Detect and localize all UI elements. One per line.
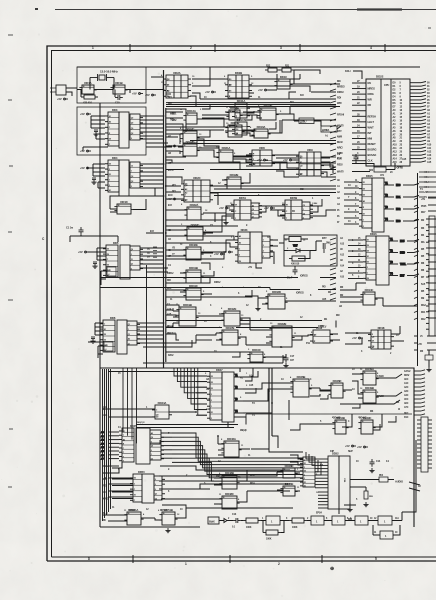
gate DD32D <box>265 290 287 309</box>
gate DD17B <box>219 326 240 345</box>
svg-text:A0C: A0C <box>404 378 409 381</box>
gate DD10B <box>257 104 278 120</box>
svg-text:D1: D1 <box>363 182 365 184</box>
svg-text:CAS1/: CAS1/ <box>404 370 411 373</box>
dd16 bottom <box>340 283 366 290</box>
leftio wires <box>66 88 77 96</box>
capacitor C13 sym <box>233 518 241 523</box>
svg-text:M17: M17 <box>421 211 426 214</box>
resistor R20 <box>374 167 386 172</box>
capacitor C18 <box>293 267 298 275</box>
gate DD46A <box>221 437 241 457</box>
cnt2cpu <box>192 71 362 99</box>
dd5 bus <box>140 248 168 272</box>
svg-text:DD2B: DD2B <box>235 71 242 75</box>
svg-text:RES/: RES/ <box>103 465 109 468</box>
ram DD6 <box>117 320 127 354</box>
svg-text:-1: -1 <box>105 349 107 351</box>
ground <box>426 367 431 372</box>
svg-text:-1: -1 <box>108 274 110 276</box>
dd15 outputs <box>384 182 401 223</box>
resistor R34 <box>289 256 308 261</box>
register DD47 <box>222 372 234 422</box>
svg-text:+5V: +5V <box>57 97 62 101</box>
ground <box>92 264 97 269</box>
svg-text:M83: M83 <box>396 220 401 223</box>
ground <box>347 507 352 512</box>
svg-text:DD1D: DD1D <box>120 200 127 204</box>
svg-text:DD46A: DD46A <box>227 437 236 441</box>
dd32d wires <box>258 298 336 306</box>
wire dd52 left stubs <box>315 459 328 508</box>
svg-text:RAS/: RAS/ <box>168 354 174 357</box>
mux DD33 <box>235 228 250 263</box>
gate DD32C <box>184 223 205 240</box>
resistor R25 <box>81 95 98 99</box>
+5V supply <box>78 250 89 254</box>
svg-text:ПС/: ПС/ <box>172 190 176 193</box>
svg-text:DD8: DD8 <box>259 146 265 150</box>
gate DD13B <box>225 121 244 137</box>
gate DD1C <box>274 75 292 89</box>
svg-text:9: 9 <box>303 218 304 220</box>
bottom wires <box>108 368 382 521</box>
cpu left pin stubs and numbers <box>352 83 366 161</box>
svg-text:DD1A: DD1A <box>84 81 91 85</box>
svg-text:TRNL: TRNL <box>400 263 407 266</box>
resistor R17 <box>321 126 337 132</box>
+5V supply <box>132 92 143 96</box>
bus bundle to DD52 <box>172 433 303 481</box>
svg-text:A3C: A3C <box>404 390 409 393</box>
svg-text:Ф: Ф <box>398 408 400 411</box>
pin nums chain <box>228 518 328 520</box>
svg-text:IORG/: IORG/ <box>167 272 174 275</box>
gate DD12C <box>180 127 199 143</box>
mux DD33 pins <box>262 236 273 258</box>
svg-text:A2: A2 <box>363 200 365 203</box>
svg-text:CPU: CPU <box>384 83 389 87</box>
svg-text:MREG: MREG <box>368 87 375 91</box>
svg-text:INT/: INT/ <box>322 237 327 240</box>
svg-text:DD1B: DD1B <box>115 81 122 85</box>
capacitor C2 <box>94 130 98 132</box>
ground <box>283 363 288 368</box>
svg-text:IORG/: IORG/ <box>337 91 344 94</box>
resistor R54 <box>379 477 388 482</box>
m1 wires <box>236 321 336 328</box>
amp stage 6 <box>380 531 393 539</box>
ram DD5 right pins <box>130 246 143 270</box>
inverter DD1A <box>79 81 96 94</box>
svg-text:M05: M05 <box>400 240 405 243</box>
resistor R56 <box>243 518 261 523</box>
amp stage 5 <box>378 516 392 525</box>
svg-text:1: 1 <box>363 220 364 222</box>
cpu DD22 <box>366 79 410 166</box>
svg-text:DD14C: DD14C <box>365 288 374 292</box>
svg-text:100K: 100K <box>266 538 272 541</box>
wire dd47 left <box>196 376 207 415</box>
svg-text:WAIT/: WAIT/ <box>337 124 344 127</box>
gate DD10C <box>247 348 265 362</box>
svg-text:ВЫХ: ВЫХ <box>209 521 215 524</box>
decoder DD15 pins <box>359 178 372 228</box>
svg-text:DD46D: DD46D <box>333 379 342 383</box>
decoder DD16 <box>376 236 389 285</box>
dd50 left labels <box>103 479 109 501</box>
svg-text:DD10A: DD10A <box>257 125 266 129</box>
+5V supply <box>80 149 91 153</box>
svg-text:D0: D0 <box>363 188 365 190</box>
+5V supply <box>345 444 356 448</box>
svg-text:Q1: Q1 <box>151 459 153 461</box>
dd16 outputs <box>389 238 407 278</box>
svg-text:D3: D3 <box>211 382 213 384</box>
svg-text:DD4: DD4 <box>112 156 118 160</box>
decoder DD15 <box>372 178 384 232</box>
svg-text:+5V: +5V <box>219 206 224 210</box>
svg-text:2: 2 <box>363 226 364 228</box>
c1 wires <box>70 235 118 242</box>
svg-text:2: 2 <box>211 418 212 420</box>
dd6 wires <box>88 323 104 358</box>
capacitor C17 sym <box>284 355 289 363</box>
amp stage 3 <box>332 516 345 525</box>
svg-text:3ML/: 3ML/ <box>326 242 331 245</box>
dd3 dd4 extra bus lines <box>137 136 163 343</box>
resistor R37 <box>425 355 433 360</box>
svg-text:A1C: A1C <box>404 382 409 385</box>
svg-text:2: 2 <box>304 467 305 469</box>
svg-text:DD31C: DD31C <box>189 284 198 288</box>
svg-text:Q1: Q1 <box>252 213 254 215</box>
resistor R22 <box>265 68 280 72</box>
svg-text:ИС/: ИС/ <box>172 184 176 187</box>
amp stage 4 <box>355 516 368 525</box>
ground <box>90 339 95 344</box>
trigger DD11A <box>232 99 250 118</box>
svg-text:DD17B: DD17B <box>226 326 235 330</box>
output jack BbIX <box>208 517 227 524</box>
svg-text:DD33: DD33 <box>241 228 248 232</box>
svg-text:12: 12 <box>252 217 254 219</box>
svg-text:M1/: M1/ <box>300 188 304 191</box>
svg-text:M82: M82 <box>396 208 401 211</box>
gate DD12A <box>183 109 199 124</box>
frame outer <box>47 46 436 561</box>
rom DD4 right pins <box>130 162 143 188</box>
svg-text:NMI: NMI <box>368 137 373 141</box>
svg-text:+5V: +5V <box>205 90 210 94</box>
midcl wires <box>166 130 255 294</box>
svg-text:D1: D1 <box>304 482 306 484</box>
svg-text:bM(H)/: bM(H)/ <box>240 430 247 432</box>
svg-text:D0: D0 <box>363 195 365 197</box>
svg-text:12: 12 <box>128 343 130 345</box>
svg-text:IORG: IORG <box>368 92 374 96</box>
ground <box>165 528 170 533</box>
cpu right pin numbers <box>393 82 403 164</box>
svg-text:YB: YB <box>172 248 175 250</box>
+5V supply <box>357 445 368 449</box>
svg-text:C1 1м: C1 1м <box>66 226 73 230</box>
gate DD49A <box>360 367 378 385</box>
svg-text:ПС/: ПС/ <box>168 96 172 99</box>
svg-text:+5V: +5V <box>145 93 150 97</box>
gate DD44A <box>152 401 172 419</box>
gate DD19B <box>176 303 198 326</box>
svg-text:+5B: +5B <box>424 191 429 194</box>
svg-text:DD47: DD47 <box>216 368 223 372</box>
cpu horiz <box>166 105 340 170</box>
pin nums chain2 <box>347 517 399 534</box>
svg-text:AUDIO: AUDIO <box>395 480 403 484</box>
svg-text:D0: D0 <box>304 471 306 473</box>
bottom verticals to DD45 <box>123 368 137 443</box>
svg-text:IORG1/: IORG1/ <box>300 275 308 278</box>
gate DD10A <box>251 125 270 138</box>
counter DD2B <box>225 71 252 98</box>
dd8 wires <box>246 155 333 173</box>
iorq wires <box>100 278 336 290</box>
svg-text:DD19B: DD19B <box>183 303 192 307</box>
frame ticks top <box>130 44 385 52</box>
latch DD7B pins <box>302 202 313 220</box>
capacitor C19 stub <box>323 243 325 253</box>
gate DD48E <box>280 482 297 496</box>
svg-text:Q0: Q0 <box>151 446 153 448</box>
+5V supply <box>205 90 216 94</box>
svg-text:M1/: M1/ <box>337 80 341 83</box>
gate DD44B <box>332 416 348 434</box>
edge connector box bottom <box>421 417 428 472</box>
dd19b wires <box>173 311 313 343</box>
inverter DD1B <box>110 81 127 94</box>
svg-text:DD12A: DD12A <box>187 109 196 113</box>
bottom section box <box>100 368 414 527</box>
svg-text:DD46B: DD46B <box>297 375 306 379</box>
svg-text:DD49A: DD49A <box>365 367 374 371</box>
amp stage 1 <box>266 516 280 525</box>
svg-text:+5V: +5V <box>258 88 263 92</box>
amp stage 2 <box>311 516 324 525</box>
gate DD32B <box>269 322 294 347</box>
svg-text:11A: 11A <box>395 517 399 520</box>
svg-text:Q0: Q0 <box>252 209 254 211</box>
trigger DD8 <box>249 146 275 166</box>
svg-text:13.0-16.0 MHz: 13.0-16.0 MHz <box>100 70 118 74</box>
int wires <box>279 239 322 267</box>
svg-text:P005: P005 <box>421 205 427 208</box>
dd1d wires <box>110 196 163 212</box>
svg-text:DD50: DD50 <box>138 470 145 474</box>
svg-text:2: 2 <box>211 394 212 396</box>
svg-text:DD32A: DD32A <box>190 203 199 207</box>
svg-text:DD7A: DD7A <box>239 196 246 200</box>
latch DD7A <box>231 196 251 220</box>
zone numbers <box>88 46 377 566</box>
svg-text:M12: M12 <box>421 318 426 321</box>
capacitor C4 <box>93 262 97 264</box>
svg-text:NRC/: NRC/ <box>337 147 343 150</box>
page top edge <box>35 8 436 11</box>
svg-text:DD32B: DD32B <box>278 322 287 326</box>
dd52 bottom wires <box>339 503 356 514</box>
+5V supply <box>352 336 363 340</box>
text sprinkles 2 <box>112 94 423 511</box>
buffer DD18 <box>368 326 394 349</box>
decoder DD50 rpins <box>154 476 165 500</box>
sound DD52 body2 <box>339 456 350 509</box>
svg-text:BUSAK: BUSAK <box>368 153 377 157</box>
svg-text:A2C: A2C <box>404 386 409 389</box>
svg-text:DD(C)1/: DD(C)1/ <box>137 422 145 424</box>
section border left <box>99 103 101 527</box>
svg-text:INT: INT <box>368 131 372 135</box>
svg-text:DD12C: DD12C <box>186 127 195 131</box>
capacitor C5 <box>91 337 95 339</box>
svg-text:PRES/ 9: PRES/ 9 <box>167 332 176 335</box>
mesh2 wires <box>108 105 396 509</box>
svg-text:D3: D3 <box>211 376 213 378</box>
svg-text:M14: M14 <box>250 474 255 477</box>
pin numbers sprinkle <box>124 74 379 516</box>
svg-text:MLS/: MLS/ <box>337 141 343 144</box>
capacitor C9 sym <box>354 154 359 162</box>
bottom left rails <box>103 369 111 521</box>
cpu right stubs <box>410 82 426 163</box>
svg-text:DD51A: DD51A <box>128 509 135 512</box>
svg-text:DD44B: DD44B <box>333 417 341 420</box>
svg-text:WAIT: WAIT <box>368 125 375 129</box>
gate DD32A <box>184 203 203 220</box>
dd44a wires <box>103 409 196 417</box>
svg-text:CLK: CLK <box>368 159 373 163</box>
svg-text:+5V: +5V <box>80 149 85 153</box>
decoder DD16 pins <box>363 236 376 280</box>
rom DD3 left pins <box>105 112 119 146</box>
long414 <box>246 414 412 417</box>
svg-text:2: 2 <box>211 400 212 402</box>
svg-text:A-(: A-( <box>325 135 328 138</box>
svg-text:D1: D1 <box>211 412 213 414</box>
svg-text:C3B: C3B <box>343 478 345 483</box>
svg-text:2: 2 <box>263 256 264 258</box>
gate DD46B <box>290 375 311 397</box>
mesh wires <box>143 92 336 363</box>
svg-text:DD10C: DD10C <box>252 348 261 352</box>
svg-text:BUSRG: BUSRG <box>368 148 377 152</box>
svg-text:KCL/: KCL/ <box>345 69 351 73</box>
gate DD49B <box>360 386 378 403</box>
svg-text:2: 2 <box>304 478 305 480</box>
svg-text:DD48D: DD48D <box>285 464 294 468</box>
left io box <box>56 85 66 95</box>
+5V supply <box>80 112 91 116</box>
svg-text:INT/: INT/ <box>337 130 342 133</box>
dd46a wires <box>218 436 250 455</box>
dd4 wires <box>87 164 105 188</box>
svg-text:M83: M83 <box>424 186 429 189</box>
dd45 right wires <box>161 433 172 458</box>
dd51 wires <box>103 508 293 521</box>
dd48 wires <box>159 470 290 504</box>
r20 wires <box>352 162 395 172</box>
ground <box>363 502 368 507</box>
svg-text:RD: RD <box>368 103 372 107</box>
svg-text:+5V: +5V <box>257 158 262 162</box>
sound DD52 <box>328 456 339 509</box>
dd16 left wires <box>348 240 363 279</box>
svg-text:DM0: DM0 <box>400 252 406 255</box>
svg-text:RD/: RD/ <box>167 279 171 282</box>
dd10 wires <box>225 106 336 133</box>
gate DD31A <box>216 146 235 162</box>
cpu left pin names <box>368 81 390 163</box>
counter DD2A <box>163 71 191 98</box>
svg-text:DD32E: DD32E <box>189 243 198 247</box>
svg-text:D1: D1 <box>304 463 306 465</box>
svg-text:M1/: M1/ <box>336 314 340 317</box>
svg-text:A14 11: A14 11 <box>167 308 175 311</box>
dd45 left bus <box>101 431 119 461</box>
svg-text:C-BH: C-BH <box>312 203 318 205</box>
edge rows 170-200 <box>419 171 436 199</box>
svg-text:D3: D3 <box>211 388 213 390</box>
rom DD4 <box>119 160 129 196</box>
svg-text:Q3: Q3 <box>303 205 305 207</box>
svg-text:A5C: A5C <box>404 398 409 401</box>
crystal ZQ1 <box>90 74 114 81</box>
r57 wires <box>263 521 284 533</box>
svg-text:DD7B: DD7B <box>290 196 297 200</box>
svg-text:EC/: EC/ <box>168 204 172 207</box>
mux DD45 pins <box>119 428 134 463</box>
gate DD12B <box>224 173 243 189</box>
svg-text:DD2C: DD2C <box>193 176 200 180</box>
gate DD48D <box>280 464 297 478</box>
svg-text:WR: WR <box>368 98 372 102</box>
dd33 wires <box>256 240 278 268</box>
rom DD3 <box>119 112 129 148</box>
section border right upper <box>417 173 419 366</box>
svg-text:1: 1 <box>211 406 212 408</box>
chain2 wires <box>345 512 402 535</box>
svg-text:M81: M81 <box>424 176 429 179</box>
dd5 wires <box>88 248 107 285</box>
INT circuit box <box>284 235 337 266</box>
capacitor C1 <box>79 227 84 235</box>
pulse shaper box <box>289 237 301 242</box>
gate DD1D <box>114 200 133 214</box>
counter DD9 <box>296 148 324 176</box>
svg-text:HALT: HALT <box>368 120 375 124</box>
resistor R21 <box>279 68 294 72</box>
svg-text:RES/: RES/ <box>337 164 343 167</box>
svg-text:DD6: DD6 <box>110 316 116 320</box>
audio wires <box>350 480 420 492</box>
diode VD7 <box>288 245 310 253</box>
svg-text:RD/: RD/ <box>337 97 341 100</box>
ram DD5 <box>120 245 130 279</box>
dd18 wires <box>345 326 404 344</box>
svg-text:M07: M07 <box>400 275 405 278</box>
svg-text:A4C: A4C <box>404 394 409 397</box>
svg-text:M80: M80 <box>396 184 401 187</box>
svg-text:RFSH/: RFSH/ <box>337 113 344 116</box>
dd2c wires <box>166 170 227 206</box>
